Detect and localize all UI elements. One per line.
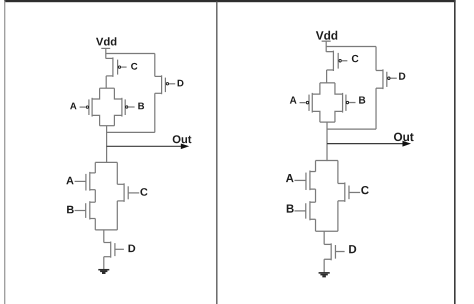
wire P4 source down xyxy=(154,93,156,132)
node pulldown network bottom bar xyxy=(95,229,117,231)
wire P4 source down xyxy=(375,88,377,129)
label A (P2 gate) xyxy=(70,103,76,110)
wire Out with arrowhead xyxy=(327,141,411,147)
wire left branch lower xyxy=(315,219,317,231)
left schematic panel xyxy=(66,37,191,273)
wire P4 source to main node xyxy=(107,131,155,133)
frame left border xyxy=(4,1,6,304)
node pulldown network bottom bar xyxy=(316,230,338,232)
wire between N1 and N2 xyxy=(315,189,317,202)
right schematic panel (same circuit, slightly larger) xyxy=(286,31,414,277)
wire left branch upper xyxy=(94,162,96,173)
ground symbol xyxy=(319,273,330,276)
transistor N2 (NMOS, gate B) xyxy=(294,201,315,220)
wire P1 source to A/B pair xyxy=(326,70,328,83)
label A (N1 gate) xyxy=(286,174,294,182)
transistor N1 (NMOS, gate A) xyxy=(75,172,96,191)
transistor P2 (PMOS, gate A) and P3 (PMOS, gate B) parallel pair body xyxy=(92,88,122,126)
wire Out with arrowhead xyxy=(107,144,190,150)
wire P1 source to A/B pair xyxy=(105,76,107,88)
wire top branch to D transistor xyxy=(326,46,376,48)
label C (N3 gate) xyxy=(140,188,147,196)
frame right border xyxy=(454,0,456,304)
label D (N4 gate) xyxy=(129,245,136,253)
wire left branch upper xyxy=(315,161,317,172)
wire D branch vertical xyxy=(154,54,156,77)
transistor N2 (NMOS, gate B) xyxy=(75,201,96,219)
ground symbol xyxy=(98,270,109,273)
wire stem to N4 xyxy=(323,231,325,244)
node pulldown network top bar xyxy=(95,161,117,163)
transistor N4 (NMOS, gate D) xyxy=(324,243,344,260)
wire left branch lower xyxy=(94,219,96,230)
power label Vdd xyxy=(96,37,116,45)
wire N4 source to ground xyxy=(103,257,105,270)
wire between N1 and N2 xyxy=(94,190,96,203)
wire right branch upper xyxy=(337,161,339,184)
label B (P3 gate) xyxy=(359,96,365,103)
wire main vertical to output node xyxy=(326,122,328,161)
label C (N3 gate) xyxy=(361,186,368,194)
transistor N4 (NMOS, gate D) xyxy=(104,242,124,258)
label B (P3 gate) xyxy=(138,103,144,110)
node pulldown network top bar xyxy=(316,160,338,162)
transistor P2 (PMOS, gate A) and P3 (PMOS, gate B) parallel pair body xyxy=(312,83,342,122)
wire N4 source to ground xyxy=(323,259,325,272)
node Out: label xyxy=(173,135,192,143)
gate of P2 with bubble xyxy=(80,99,89,115)
transistor N1 (NMOS, gate A) xyxy=(294,170,315,190)
label C (P1 gate) xyxy=(131,63,137,70)
transistor P4 (PMOS, gate D) xyxy=(376,69,397,89)
transistor N3 (NMOS, gate C) xyxy=(117,183,139,202)
wire right branch lower xyxy=(337,201,339,231)
label D (P4 gate) xyxy=(178,80,184,87)
transistor P1 (PMOS, gate C) xyxy=(106,57,127,77)
wire top branch to D transistor xyxy=(106,53,155,55)
Vdd rail bar xyxy=(322,40,331,42)
wire D branch vertical xyxy=(375,47,377,71)
wire Vdd stem down xyxy=(105,48,107,58)
transistor N3 (NMOS, gate C) xyxy=(338,182,360,201)
gate of P3 with bubble xyxy=(125,99,134,115)
gate of P3 with bubble xyxy=(346,95,356,111)
transistor P1 (PMOS, gate C) xyxy=(326,51,347,71)
wire main vertical to output node xyxy=(106,126,108,163)
label D (N4 gate) xyxy=(349,245,356,253)
Vdd rail bar xyxy=(101,47,110,49)
wire right branch upper xyxy=(116,162,118,184)
label B (N2 gate) xyxy=(67,206,74,214)
power label Vdd xyxy=(316,31,337,40)
wire Vdd stem down xyxy=(325,41,327,52)
label D (P4 gate) xyxy=(399,73,405,80)
gate of P2 with bubble xyxy=(300,95,309,111)
transistor P4 (PMOS, gate D) xyxy=(155,75,175,94)
wire stem to N4 xyxy=(103,230,105,243)
label A (P2 gate) xyxy=(290,96,297,103)
frame top bar xyxy=(4,0,455,2)
label C (P1 gate) xyxy=(352,55,359,62)
wire right branch lower xyxy=(116,201,118,230)
node Out: label xyxy=(394,133,414,142)
label A (N1 gate) xyxy=(66,177,73,185)
label B (N2 gate) xyxy=(287,205,294,213)
wire P4 source to main node xyxy=(327,128,376,130)
panel divider xyxy=(216,2,218,304)
